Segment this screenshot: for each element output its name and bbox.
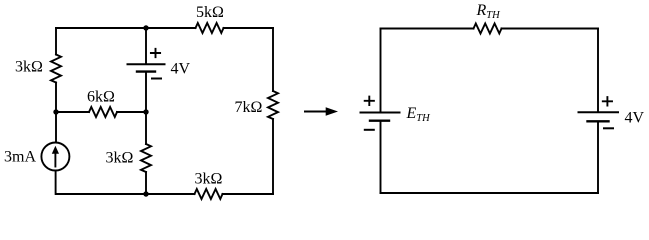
battery B1 plus sign <box>151 49 160 57</box>
wire bottom-left segment <box>56 193 146 195</box>
wire middle top <box>145 28 147 63</box>
wire left upper (right circuit) <box>380 29 382 112</box>
wire top-right segment (right circuit) <box>502 28 599 30</box>
current source arrow shaft <box>54 153 56 167</box>
battery 4V right long plate <box>579 111 619 113</box>
resistor 5k body <box>196 23 224 33</box>
wire left middle <box>55 83 57 143</box>
battery B1 long plate <box>128 63 165 65</box>
wire top-left segment (left circuit) <box>56 27 196 29</box>
node dot top (left circuit) <box>143 25 148 30</box>
battery 4V right short plate <box>588 120 609 122</box>
wire 6k left segment <box>56 111 89 113</box>
wire right upper <box>272 28 274 91</box>
svg-text:4V: 4V <box>625 110 645 127</box>
svg-text:3kΩ: 3kΩ <box>106 150 134 167</box>
arrow shaft (implication arrow) <box>305 111 327 113</box>
wire bottom (right circuit) <box>381 192 599 194</box>
svg-text:RTH: RTH <box>476 2 502 21</box>
wire right lower (right circuit) <box>597 123 599 193</box>
resistor 7k body <box>268 91 278 119</box>
battery 4V right plus sign <box>603 97 612 105</box>
arrow head (implication arrow) <box>326 107 338 116</box>
battery ETH short plate <box>370 119 389 121</box>
wire 6k right segment <box>117 111 146 113</box>
svg-text:4V: 4V <box>171 61 191 78</box>
resistor 3k middle body <box>141 144 151 172</box>
node dot bottom <box>143 191 148 196</box>
wire top-left segment (right circuit) <box>381 28 474 30</box>
svg-text:3mA: 3mA <box>4 149 36 166</box>
svg-text:ETH: ETH <box>406 105 432 124</box>
svg-text:5kΩ: 5kΩ <box>196 4 224 21</box>
wire middle lower <box>145 112 147 144</box>
svg-text:3kΩ: 3kΩ <box>15 59 43 76</box>
wire right upper (right circuit) <box>597 29 599 112</box>
resistor 3k bottom body <box>195 189 223 199</box>
wire middle mid <box>145 73 147 112</box>
wire top-right segment (left circuit) <box>224 27 274 29</box>
battery B1 minus sign <box>152 78 161 80</box>
battery ETH plus sign <box>365 97 374 105</box>
wire left lower <box>55 171 57 195</box>
resistor 6k body <box>89 107 117 117</box>
svg-text:6kΩ: 6kΩ <box>87 89 115 106</box>
svg-text:3kΩ: 3kΩ <box>195 171 223 188</box>
wire left upper <box>55 28 57 55</box>
battery ETH long plate <box>361 112 400 114</box>
current source I1 circle <box>41 143 69 171</box>
node dot 6k left <box>53 109 58 114</box>
wire middle bottom <box>145 172 147 194</box>
wire bottom-right segment <box>223 193 274 195</box>
battery 4V right minus sign <box>604 127 613 129</box>
wire left lower (right circuit) <box>380 122 382 193</box>
current source arrow head <box>52 146 59 154</box>
svg-text:7kΩ: 7kΩ <box>235 99 263 116</box>
resistor 3k left body <box>51 55 61 83</box>
wire bottom middle segment <box>146 193 195 195</box>
node dot 6k right <box>143 109 148 114</box>
battery B1 short plate <box>137 70 155 72</box>
resistor RTH body <box>474 24 502 34</box>
wire right lower <box>272 119 274 194</box>
battery ETH minus sign <box>365 129 374 131</box>
